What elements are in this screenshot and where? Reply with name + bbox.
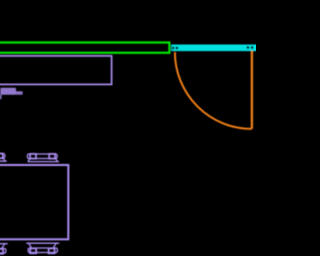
fixing dot left 2 <box>176 47 179 50</box>
chair back right cap <box>49 248 55 253</box>
fixing dot right 1 <box>247 46 250 49</box>
chair bottom-left (partial, clipped by canvas) <box>0 244 8 254</box>
chair seat front line <box>28 161 59 163</box>
chair back right cap <box>49 154 55 159</box>
tiny annotation text row 2 extension <box>16 91 23 95</box>
CAD floor-plan fragment: walls, door, table with chairs <box>0 0 256 256</box>
chair back bar <box>28 248 57 253</box>
wall W1 (green double-line wall, open to the left) <box>0 43 169 53</box>
chair back left cap <box>30 154 36 159</box>
table (large purple rectangle, open to the left) <box>0 165 68 239</box>
chair seat left slant <box>29 243 32 248</box>
chair seat right slant <box>55 159 57 162</box>
fixing dot left 1 <box>172 47 175 50</box>
chair seat right slant <box>53 243 56 248</box>
chair bottom (full) <box>26 243 59 253</box>
chair seat front line <box>26 242 59 244</box>
tiny annotation text block <box>0 88 16 95</box>
window sill / threshold (cyan bar) <box>171 45 257 52</box>
door swing arc <box>175 52 252 129</box>
chair seat left slant <box>28 159 30 162</box>
door leaf (orange, open position) <box>251 51 253 129</box>
chair top-left (partial, clipped by canvas) <box>0 154 7 162</box>
annotation descender <box>0 95 1 100</box>
counter / desk outline (purple rectangle, open to the left) <box>0 56 112 85</box>
chair back left cap <box>30 248 36 253</box>
chair top (full) <box>27 154 59 162</box>
fixing dot right 2 <box>251 46 254 49</box>
chair back bar <box>27 154 57 159</box>
